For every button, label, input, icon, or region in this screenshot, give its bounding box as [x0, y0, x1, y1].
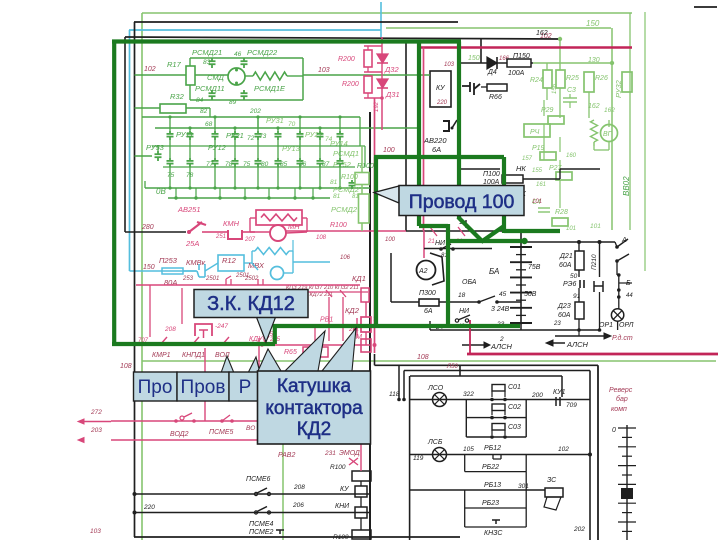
svg-text:Р19: Р19 [532, 145, 545, 152]
fuse П210 wire [599, 242, 601, 277]
motor А2 [417, 261, 436, 280]
svg-text:ОР1: ОР1 [599, 322, 613, 329]
wire pink drops from КД row [149, 285, 151, 337]
resistor R12 cyan [218, 255, 244, 271]
svg-text:Провод 100: Провод 100 [409, 191, 515, 213]
callout box Р [229, 372, 260, 401]
highlight frame right [457, 42, 461, 219]
svg-text:R17: R17 [167, 60, 182, 69]
svg-text:БА: БА [489, 267, 499, 276]
svg-text:Д23: Д23 [557, 303, 571, 310]
svg-text:КУ: КУ [436, 85, 446, 92]
svg-text:АЛСН: АЛСН [490, 342, 513, 351]
resistor R26 [584, 72, 594, 92]
wire mid bus y146 [152, 145, 365, 147]
svg-text:А2: А2 [418, 268, 428, 275]
svg-text:103: 103 [318, 67, 330, 74]
diode Д31 [377, 79, 388, 88]
svg-text:Про: Про [138, 377, 173, 398]
highlight inner vertical x419 [417, 42, 421, 227]
knife switch 2 [615, 259, 619, 263]
wire crimson vertical x470 [469, 320, 471, 354]
svg-text:R32: R32 [170, 92, 185, 101]
svg-text:РБ22: РБ22 [482, 464, 499, 471]
svg-text:НИ: НИ [435, 240, 446, 247]
diode Д32 [377, 54, 388, 63]
generator ВГ [601, 125, 618, 142]
wire РЭ6 rail [599, 292, 601, 330]
svg-text:ОБА: ОБА [462, 279, 477, 286]
wire row 512 black [135, 512, 371, 514]
switch 29-45 [460, 301, 478, 303]
wire battery bottom row [430, 329, 521, 331]
wire 108 light-green horizontal bus [142, 360, 716, 362]
resistor МН field [256, 210, 302, 225]
svg-text:СМД: СМД [207, 73, 225, 82]
diode symbol ЭМОД [349, 458, 358, 465]
callout box Пров [177, 372, 229, 401]
svg-text:R26: R26 [595, 75, 608, 82]
svg-text:160: 160 [566, 153, 577, 159]
svg-text:322: 322 [463, 391, 474, 398]
svg-text:С02: С02 [508, 404, 521, 411]
highlight corner x419 to x448 [419, 224, 448, 228]
svg-text:Д32: Д32 [384, 65, 399, 74]
highlight vertical x504 [502, 157, 506, 233]
РСМД block frame [195, 74, 228, 76]
wire vertical 130 drop x612 [611, 28, 613, 230]
svg-text:155: 155 [532, 168, 543, 174]
svg-text:Р: Р [239, 377, 252, 398]
svg-text:207: 207 [244, 237, 256, 243]
wire R24-R26 bottoms [546, 88, 548, 100]
svg-text:6А: 6А [432, 145, 441, 154]
wire ladder feed triple corners [374, 354, 376, 365]
wire black left vertical short [124, 37, 126, 232]
contact ПСМЕ6 [254, 492, 257, 495]
wire cyan left border vertical [129, 30, 131, 271]
wire КМР1 row y345 [142, 344, 370, 346]
svg-text:68: 68 [205, 121, 213, 128]
wire РБ23 loop [464, 490, 466, 508]
svg-text:108: 108 [417, 354, 429, 361]
svg-text:С03: С03 [508, 424, 521, 431]
svg-text:101: 101 [532, 199, 542, 205]
svg-text:РБ23: РБ23 [482, 500, 499, 507]
wire black top border A [134, 21, 458, 23]
svg-text:75В: 75В [528, 264, 541, 271]
svg-text:220: 220 [436, 100, 448, 106]
svg-text:С01: С01 [508, 384, 521, 391]
РУ contact mesh [169, 131, 171, 134]
wire black corner into МН row [125, 231, 150, 233]
contact ПСМЕ4 [254, 511, 257, 514]
svg-text:АВ251: АВ251 [177, 205, 201, 214]
motor МН [270, 225, 286, 241]
svg-text:П300: П300 [419, 290, 436, 297]
wire cyan МВХ feeder row [130, 270, 197, 272]
highlight wire 100 big frame top [112, 39, 461, 43]
resistor РСМД12 zigzag [253, 72, 287, 80]
svg-text:108: 108 [316, 235, 327, 241]
svg-text:103: 103 [90, 528, 101, 535]
svg-text:А: А [621, 237, 627, 244]
wire crimson 102 top [421, 46, 632, 49]
wire РБ22 loop [464, 455, 466, 472]
wire light-green vertical x630 [629, 13, 631, 230]
svg-text:45: 45 [499, 291, 507, 298]
highlight horizontal y157 [374, 155, 504, 159]
leader fan callout small 2 [248, 357, 260, 373]
svg-text:РБ12: РБ12 [484, 445, 501, 452]
callout Провод 100 [399, 186, 524, 216]
wire crimson thick right [467, 353, 718, 356]
wire black vertical x600 right rail lower [597, 365, 599, 540]
highlight frame bottom [112, 342, 275, 346]
svg-text:П210: П210 [591, 254, 598, 270]
highlight vertical x448 [446, 224, 450, 328]
svg-text:ЛСО: ЛСО [427, 385, 444, 392]
svg-text:231: 231 [324, 450, 336, 457]
highlight diagonal right [458, 217, 482, 241]
svg-text:Р.д.ст: Р.д.ст [612, 334, 633, 342]
svg-text:Л50: Л50 [446, 364, 458, 370]
svg-text:РВ1: РВ1 [320, 317, 333, 324]
svg-text:R28: R28 [555, 209, 568, 216]
svg-text:72: 72 [247, 135, 255, 142]
wire green right verticals [359, 117, 361, 146]
svg-text:253: 253 [182, 276, 194, 282]
svg-text:208: 208 [293, 484, 305, 491]
svg-text:бар: бар [616, 395, 628, 403]
svg-text:203: 203 [90, 427, 102, 434]
wire pale column links [361, 146, 363, 173]
wire РДСТ with arrow [555, 335, 604, 337]
wire green bus y198 [168, 197, 330, 199]
svg-text:272: 272 [90, 409, 102, 416]
svg-text:102: 102 [144, 66, 156, 73]
svg-text:R100: R100 [341, 174, 358, 181]
svg-text:КНЗС: КНЗС [484, 530, 503, 537]
contact КНПД1 [192, 337, 199, 345]
wire black bottom border [134, 536, 460, 538]
resistor МВХ field zigzag [255, 248, 289, 255]
wire black rail links [360, 440, 362, 471]
svg-text:106: 106 [340, 255, 351, 261]
svg-text:81: 81 [333, 193, 341, 200]
wire pink verticals under boxes [204, 348, 206, 421]
svg-text:R200: R200 [342, 81, 359, 88]
contact symbol right of КУ [462, 82, 470, 92]
tick marks 21 [430, 227, 437, 236]
svg-text:100А: 100А [508, 70, 525, 77]
wire black drop to diode row [480, 39, 482, 63]
wire black top border B 162 [125, 37, 558, 39]
svg-text:150: 150 [468, 55, 480, 62]
highlight arrow y241 [448, 239, 524, 243]
svg-text:НК: НК [516, 164, 526, 173]
highlight horizontal y231 [504, 229, 560, 233]
button КНЗС [464, 508, 466, 527]
wire black left vertical main [134, 22, 136, 537]
contact ВОЛ [222, 337, 229, 345]
leader fan Катушка 2 [285, 331, 325, 371]
svg-text:25А: 25А [185, 239, 199, 248]
svg-text:301: 301 [518, 483, 529, 490]
wire vertical from node 162 [559, 39, 561, 70]
svg-text:75: 75 [167, 172, 175, 179]
highlight frame left [112, 42, 116, 345]
svg-text:П100: П100 [483, 171, 500, 178]
svg-text:89: 89 [229, 99, 237, 106]
wire light-green vertical left bus [141, 13, 143, 540]
wire 103 to АВ220 [303, 74, 430, 76]
svg-text:Р29: Р29 [541, 107, 554, 114]
diode Д4 [460, 62, 487, 64]
contacts row 285 [226, 276, 231, 285]
svg-text:С3: С3 [567, 87, 576, 94]
svg-text:Д4: Д4 [487, 69, 497, 76]
contact КМР1 [160, 337, 167, 345]
svg-text:82: 82 [200, 108, 208, 115]
node chain right [617, 273, 621, 277]
wire МН row black part [150, 231, 186, 233]
wire row 494 black [135, 493, 371, 495]
svg-text:50В: 50В [524, 291, 537, 298]
svg-text:КНИ: КНИ [335, 503, 350, 510]
wire black vertical x406 [405, 41, 407, 231]
wire battery bottom to right [521, 329, 600, 331]
svg-text:46: 46 [234, 51, 242, 58]
svg-text:РАВ2: РАВ2 [278, 452, 295, 459]
svg-text:108: 108 [120, 363, 132, 370]
svg-text:192: 192 [374, 101, 380, 112]
wire mid bus y167 [163, 166, 355, 168]
contact КМ bracket [195, 324, 212, 336]
svg-text:102: 102 [558, 446, 569, 453]
svg-text:R200: R200 [338, 56, 355, 63]
svg-text:2501: 2501 [205, 276, 219, 282]
svg-text:ЭМОД: ЭМОД [339, 450, 360, 457]
svg-text:Д31: Д31 [385, 90, 400, 99]
contact КДУС symbol [262, 336, 269, 345]
wire А2 top [423, 231, 425, 258]
leader fan callout small 1 [221, 356, 234, 373]
svg-text:контактора: контактора [265, 398, 363, 419]
svg-text:2501: 2501 [235, 273, 249, 279]
resistor R25 [556, 70, 565, 88]
svg-text:ПСМЕ5: ПСМЕ5 [209, 429, 234, 436]
svg-text:220: 220 [143, 504, 155, 511]
svg-text:ВГ: ВГ [603, 131, 613, 138]
svg-text:РСМД21: РСМД21 [192, 48, 222, 57]
svg-text:100: 100 [383, 147, 395, 154]
svg-text:КМВк: КМВк [186, 258, 206, 267]
wire battery top step [520, 231, 522, 246]
wire crimson vertical АВ220 [423, 48, 425, 232]
resistor R24 [543, 70, 552, 88]
svg-text:70: 70 [288, 121, 296, 128]
battery 75В cells [520, 246, 522, 325]
leader З.К. КД12 [256, 316, 276, 342]
contact КД row ticks [326, 290, 332, 297]
coil КД2 [361, 317, 371, 332]
contacts 84 89 [211, 90, 213, 93]
svg-text:РЭ6: РЭ6 [563, 281, 577, 288]
breaker symbol АВ220 [443, 121, 449, 131]
svg-text:КД1: КД1 [352, 274, 366, 283]
wire pink row y285 [136, 284, 360, 286]
svg-text:60А: 60А [559, 262, 572, 269]
highlight step up [273, 326, 277, 344]
resistor R100 pale [355, 173, 369, 185]
svg-text:R100: R100 [330, 464, 346, 471]
svg-text:R25: R25 [566, 75, 579, 82]
svg-text:709: 709 [566, 402, 577, 409]
svg-text:R12: R12 [222, 256, 237, 265]
svg-text:Реверс: Реверс [609, 387, 633, 394]
wire МН row to right [285, 230, 406, 232]
svg-text:100: 100 [385, 237, 396, 243]
svg-text:118: 118 [389, 391, 400, 398]
contact СО3 [466, 436, 526, 438]
wire black top right dash [694, 6, 717, 8]
svg-text:АВ220: АВ220 [423, 136, 447, 145]
svg-text:0: 0 [612, 427, 616, 434]
svg-text:105: 105 [463, 446, 474, 453]
wire НК vertical [559, 169, 561, 179]
svg-text:КД2: КД2 [297, 419, 332, 440]
svg-text:R65: R65 [284, 349, 297, 356]
svg-text:R100: R100 [333, 534, 349, 540]
svg-text:44: 44 [626, 293, 633, 299]
svg-text:РСМД22: РСМД22 [247, 48, 278, 57]
svg-text:84: 84 [196, 97, 204, 104]
wire black vertical x370 [369, 112, 371, 540]
svg-text:Катушка: Катушка [277, 376, 352, 397]
svg-text:КМН: КМН [223, 219, 240, 228]
svg-text:ОРЛ: ОРЛ [619, 322, 634, 329]
resistor КНИ rail [355, 507, 367, 518]
svg-text:РУ53: РУ53 [146, 143, 165, 152]
svg-text:ЛСБ: ЛСБ [427, 439, 443, 446]
svg-text:ПСМЕ4: ПСМЕ4 [249, 521, 274, 528]
wire cyan stub top [380, 2, 382, 37]
wire 150 second light-green line [386, 27, 611, 29]
svg-text:162: 162 [588, 103, 600, 110]
contact СО2 [465, 400, 467, 438]
svg-text:83: 83 [203, 59, 211, 66]
wire АЛСН arrow left [546, 340, 553, 346]
svg-text:КНПД1: КНПД1 [182, 352, 205, 359]
leader fan Катушка 1 [258, 349, 281, 371]
wire АЛСН arrow right [462, 344, 484, 346]
svg-text:162: 162 [536, 30, 548, 37]
svg-text:208: 208 [164, 326, 176, 333]
svg-text:ВО: ВО [246, 425, 255, 432]
wire row 440 pink [111, 439, 370, 441]
wire РБ12 row [410, 454, 590, 456]
svg-text:КД2: КД2 [345, 306, 360, 315]
svg-text:202: 202 [249, 108, 261, 115]
resistor R100 lowest [352, 530, 371, 539]
svg-text:РСМД11: РСМД11 [195, 84, 225, 93]
highlight inner vertical x376 [374, 157, 378, 328]
contact СО1 [492, 385, 505, 392]
svg-text:280: 280 [141, 224, 154, 231]
wire row 421 pink [111, 420, 280, 422]
svg-text:РУ14: РУ14 [330, 139, 348, 148]
wire МН row black continuation [406, 230, 521, 232]
svg-text:комп: комп [611, 406, 627, 413]
resistor R66 [487, 84, 507, 91]
contact РУ53 stub [135, 155, 153, 157]
wire cyan top border [129, 29, 381, 31]
svg-text:ПСМЕ6: ПСМЕ6 [246, 476, 271, 483]
wire РБ13 row [410, 489, 545, 491]
svg-text:162: 162 [604, 107, 615, 114]
relay РЧ [524, 124, 550, 137]
svg-text:РУ32: РУ32 [614, 79, 623, 98]
svg-text:156: 156 [552, 83, 558, 94]
svg-text:РБ13: РБ13 [484, 482, 501, 489]
wire diode junction [364, 45, 382, 47]
wire light-green vertical right margin [644, 12, 646, 271]
wire light-green vertical x283 bottom [282, 438, 284, 540]
svg-text:КУ1: КУ1 [553, 389, 566, 396]
svg-text:РСМД1: РСМД1 [333, 149, 359, 158]
svg-text:РСМД1Е: РСМД1Е [254, 84, 286, 93]
svg-text:3 24В: 3 24В [491, 306, 510, 313]
resistor R23 [622, 72, 632, 92]
svg-text:21: 21 [427, 239, 435, 245]
resistor КУ rail [355, 486, 367, 497]
wire 130 light-green [533, 62, 611, 64]
contact КНИЗ [276, 530, 284, 534]
resistor vertical zigzag [591, 120, 598, 142]
svg-text:101: 101 [590, 223, 601, 230]
svg-text:R100: R100 [330, 222, 347, 229]
wire pink row y292 right [260, 291, 368, 293]
svg-text:206: 206 [292, 502, 304, 509]
wire net 150 light-green top [142, 12, 632, 14]
svg-text:150: 150 [143, 264, 155, 271]
knife switch А3 top [615, 245, 619, 249]
contact ПСМЕ5 [220, 419, 224, 423]
callout box Про [134, 372, 178, 401]
svg-text:-247: -247 [215, 323, 228, 330]
svg-text:161: 161 [536, 182, 546, 188]
svg-text:18: 18 [458, 292, 466, 299]
svg-text:103: 103 [444, 62, 455, 68]
wire СО main row [410, 399, 590, 401]
svg-text:РУ12: РУ12 [208, 143, 227, 152]
svg-text:РУ31: РУ31 [266, 116, 284, 125]
svg-text:ВОД2: ВОД2 [170, 431, 189, 438]
coil СД1 pink [361, 288, 369, 302]
svg-text:З.К. КД12: З.К. КД12 [207, 293, 295, 315]
coil ЭМОД vertical [361, 339, 371, 352]
svg-text:150: 150 [586, 19, 600, 28]
wires right analog block verticals [543, 100, 545, 116]
svg-text:78: 78 [186, 172, 194, 179]
contact РБ12 [493, 455, 501, 460]
wire НК row [460, 168, 500, 170]
svg-text:50: 50 [570, 273, 578, 280]
svg-text:Пров: Пров [181, 377, 226, 398]
resistor R65 [303, 347, 328, 357]
svg-text:60А: 60А [558, 312, 571, 319]
